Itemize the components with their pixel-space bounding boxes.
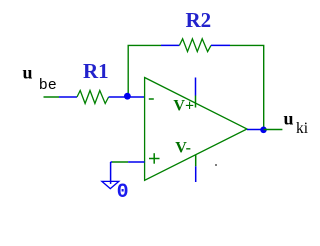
wire non-inverting input (blue corner)	[111, 161, 112, 163]
pin V- supply (green upper)	[195, 155, 197, 167]
svg-text:V+: V+	[173, 97, 194, 114]
svg-text:R1: R1	[83, 59, 109, 83]
svg-text:0: 0	[117, 181, 129, 204]
svg-text:u: u	[23, 62, 33, 82]
node output junction	[260, 127, 267, 134]
svg-text:V-: V-	[175, 139, 191, 156]
pin V+ supply (blue upper)	[195, 78, 197, 96]
wire R1 left pin (blue)	[59, 96, 77, 98]
wire non-inverting input (green middle)	[112, 161, 128, 163]
svg-text:be: be	[39, 77, 57, 94]
wire feedback right top + vertical down (green)	[230, 45, 264, 129]
wire input left (green)	[44, 96, 60, 98]
wire output right (green)	[264, 129, 283, 131]
pin V- supply (blue lower)	[195, 166, 197, 182]
stray dot	[215, 164, 217, 166]
op-amp U1 triangle	[145, 78, 247, 181]
ground symbol	[102, 181, 119, 188]
svg-text:ki: ki	[296, 120, 309, 137]
resistor R1	[77, 91, 109, 104]
wire R1 right pin to op-amp (blue)	[109, 96, 145, 98]
op-amp minus sign	[149, 98, 154, 100]
wire R2 left pin (blue)	[161, 44, 179, 46]
op-amp plus sign	[149, 158, 160, 160]
node junction at inverting input	[124, 93, 131, 100]
wire non-inverting input (blue to op-amp)	[128, 161, 145, 163]
pin V+ supply (green lower)	[195, 96, 197, 108]
wire feedback left vertical+top (green)	[128, 45, 161, 96]
wire down to ground (blue)	[110, 162, 112, 184]
svg-text:R2: R2	[186, 8, 212, 32]
svg-text:u: u	[284, 109, 294, 129]
resistor R2	[179, 39, 211, 52]
wire output (blue)	[247, 129, 264, 131]
wire R2 right pin (blue)	[211, 44, 230, 46]
